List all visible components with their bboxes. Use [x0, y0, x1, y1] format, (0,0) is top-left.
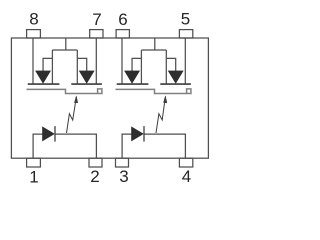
wire: ch1 center tap vertical: [65, 38, 67, 50]
pin 3 box: [116, 158, 129, 167]
photodiode D1 (ch1 left, cathode-bar MOSFET channel): [28, 71, 60, 84]
wire: ch2 right source vertical: [165, 50, 167, 84]
svg-text:7: 7: [92, 10, 101, 29]
gate electrode line ch1 (stepped, gray): [27, 89, 102, 94]
wire: ch1 right anode stub: [77, 58, 86, 71]
wire: ch2 LED anode from pin 3: [122, 134, 131, 158]
wire: ch2 LED cathode to pin 4: [144, 134, 185, 158]
LED LED2 (ch2 input diode): [132, 126, 145, 142]
photodiode D2 (ch1 right): [71, 71, 102, 84]
wire: ch2 right anode stub: [166, 58, 175, 71]
pin 5 box: [179, 30, 192, 38]
pin 7 box: [90, 30, 103, 38]
wire: ch2 source rail horizontal: [141, 49, 166, 51]
wire: ch1 right source vertical: [76, 50, 78, 84]
wire: ch2 left anode stub: [132, 58, 141, 71]
wire: ch1 LED cathode to pin 2: [55, 134, 96, 158]
wire: ch2 drain vertical from pin 6: [121, 38, 123, 84]
svg-text:3: 3: [119, 167, 128, 186]
photodiode D3 (ch2 left): [117, 71, 149, 84]
wire: ch1 left source vertical: [51, 50, 53, 84]
package body outline: [11, 38, 208, 158]
light arrow ch1: [67, 96, 78, 133]
svg-text:4: 4: [182, 167, 191, 186]
wire: ch1 LED anode from pin 1: [33, 134, 42, 158]
wire: ch1 left anode stub: [43, 58, 52, 71]
svg-text:2: 2: [90, 167, 99, 186]
svg-text:6: 6: [118, 10, 127, 29]
LED LED1 (ch1 input diode): [43, 126, 56, 142]
svg-text:8: 8: [29, 10, 38, 29]
pin 6 box: [116, 30, 129, 38]
svg-text:5: 5: [181, 10, 190, 29]
pin 4 box: [179, 158, 192, 167]
photodiode D4 (ch2 right): [160, 71, 191, 84]
gate electrode line ch2 (stepped, gray): [116, 89, 191, 94]
wire: ch2 drain vertical from pin 5: [184, 38, 186, 84]
pin 2 box: [89, 158, 102, 167]
wire: ch2 center tap vertical: [154, 38, 156, 50]
pin 8 box: [27, 30, 41, 38]
wire: ch2 left source vertical: [140, 50, 142, 84]
wire: ch1 drain vertical from pin 8: [32, 38, 34, 84]
wire: ch1 drain vertical from pin 7: [95, 38, 97, 84]
light arrow ch2: [156, 96, 167, 133]
pin 1 box: [27, 158, 41, 167]
wire: ch1 source rail horizontal: [52, 49, 77, 51]
svg-text:1: 1: [29, 168, 38, 187]
